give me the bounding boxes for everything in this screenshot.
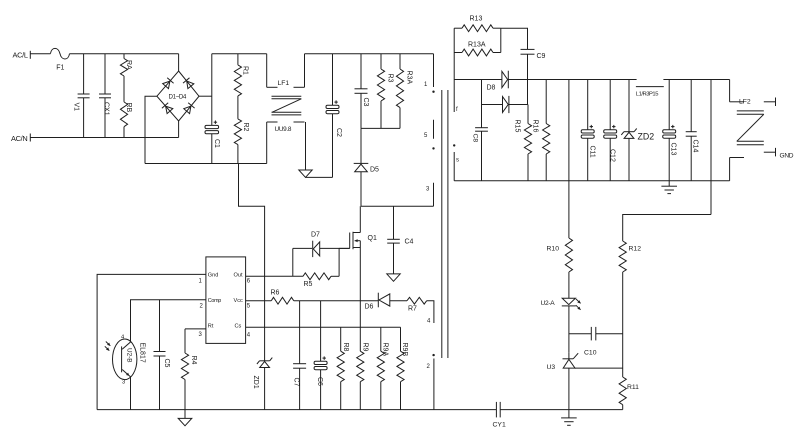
bridge rectifier D1~D4 diamond <box>157 71 199 121</box>
svg-text:Vcc: Vcc <box>234 298 244 304</box>
wire R6 to D6 <box>294 300 379 302</box>
node +V output terminal <box>775 98 777 107</box>
inductor L1 (fusible resistor L1/R3P15) <box>636 86 664 88</box>
wire secondary bottom rail segment <box>500 409 623 411</box>
wire Comp pin 2 line <box>131 300 206 342</box>
fuse F1 <box>50 48 69 59</box>
svg-text:C9: C9 <box>537 53 546 60</box>
capacitor C10 <box>569 333 591 335</box>
wire R13/R13A left legs <box>453 28 455 79</box>
resistor R9A <box>380 327 382 351</box>
wire primary gnd drop to bottom rail <box>239 164 265 361</box>
wire D8 bottom anode line <box>482 104 503 106</box>
svg-text:C4: C4 <box>405 239 414 246</box>
capacitor C7 <box>299 301 301 364</box>
svg-text:CY1: CY1 <box>493 422 506 429</box>
optocoupler U2-B <box>113 339 137 380</box>
wire Vcc pin to R6 <box>246 300 272 302</box>
inductor LF1 (common-mode choke) <box>266 54 268 88</box>
capacitor C4 <box>393 206 395 239</box>
svg-text:R13: R13 <box>470 16 483 23</box>
svg-text:R13A: R13A <box>468 42 486 49</box>
wire AC/N rail to bridge bottom <box>30 137 178 139</box>
svg-text:C3: C3 <box>362 98 369 107</box>
capacitor C6 <box>320 301 322 362</box>
svg-text:C1: C1 <box>213 139 220 148</box>
capacitor C5 <box>159 300 161 352</box>
wire RA to RB <box>123 76 125 102</box>
capacitor C13 <box>668 80 670 130</box>
node aux polarity dot <box>432 147 434 149</box>
wire secondary winding f <box>453 80 455 113</box>
resistor R3A <box>399 54 401 69</box>
svg-text:Rt: Rt <box>208 323 214 329</box>
diode D8 (top) <box>502 71 508 87</box>
svg-text:3: 3 <box>122 380 125 386</box>
svg-text:R3A: R3A <box>406 71 413 85</box>
wire R13 to C9 <box>501 28 528 49</box>
wire AC/L terminal to fuse F1 <box>30 53 50 55</box>
wire D6 to R7 <box>390 300 407 302</box>
wire D7 to Q1 gate <box>320 247 350 249</box>
svg-text:Gnd: Gnd <box>208 272 219 278</box>
svg-text:R12: R12 <box>629 246 642 253</box>
svg-text:UU9.8: UU9.8 <box>275 126 292 133</box>
svg-text:C11: C11 <box>589 146 596 158</box>
wire Q1 source to current-sense line <box>359 248 361 328</box>
svg-text:R4: R4 <box>190 356 197 365</box>
svg-text:C10: C10 <box>584 350 597 357</box>
svg-text:AC/N: AC/N <box>11 134 27 143</box>
svg-text:GND: GND <box>780 152 794 159</box>
svg-text:R9B: R9B <box>401 343 408 357</box>
diode D7 <box>312 241 314 257</box>
wire U2-A cathode down <box>568 306 570 353</box>
svg-text:R15: R15 <box>514 120 521 133</box>
svg-text:D1~D4: D1~D4 <box>169 93 187 100</box>
wire gate line with D7 <box>293 247 312 249</box>
resistor R7 <box>407 297 427 304</box>
svg-text:C8: C8 <box>472 134 479 143</box>
diode D4 (bridge bottom-right) <box>184 106 191 114</box>
ground at U3 <box>568 410 570 418</box>
light arrows into U2-B <box>106 342 111 346</box>
wire snubber rail <box>361 127 400 129</box>
zener diode ZD2 <box>628 80 630 132</box>
capacitor C14 <box>690 80 692 132</box>
wire D8 bottom cathode to C9 column <box>509 104 528 106</box>
earth ground at C4 <box>387 274 400 281</box>
resistor R13 <box>454 27 462 29</box>
node primary polarity dot <box>432 91 434 93</box>
svg-text:C6: C6 <box>316 377 323 386</box>
wire primary bottom rail <box>97 409 496 411</box>
transistor Q1 (MOSFET) <box>359 206 361 232</box>
diode D8 (bottom) <box>503 97 509 113</box>
wire Gnd pin 1 to left drop <box>97 274 206 409</box>
diode D2 (bridge top-right) <box>187 81 194 89</box>
resistor R9B <box>400 327 402 351</box>
svg-text:D7: D7 <box>311 232 320 239</box>
ground at secondary 0V <box>668 181 670 186</box>
wire Vout divider drop <box>568 80 570 239</box>
diode D1 (bridge top-left) <box>163 81 170 89</box>
svg-text:R9A: R9A <box>382 343 389 357</box>
capacitor CX1 <box>104 54 106 94</box>
node pin2 winding dot <box>432 354 434 356</box>
wire bridge left vertex to primary gnd rail <box>145 96 157 163</box>
wire R10 to U2-A <box>568 272 570 298</box>
svg-text:R1: R1 <box>242 66 249 75</box>
svg-text:D6: D6 <box>365 304 374 311</box>
svg-text:ZD1: ZD1 <box>252 376 259 389</box>
capacitor C9 <box>521 48 535 50</box>
wire U3 ref line <box>575 367 623 369</box>
resistor R13A <box>454 52 462 54</box>
svg-text:LF1: LF1 <box>278 80 290 87</box>
svg-text:L1/R3P15: L1/R3P15 <box>636 92 658 98</box>
resistor R4 <box>184 329 186 353</box>
svg-text:U3: U3 <box>547 364 556 371</box>
wire U3 anode to ground <box>568 368 570 410</box>
earth ground at LF1 <box>305 122 307 170</box>
svg-text:C13: C13 <box>670 143 677 156</box>
svg-text:R7: R7 <box>408 306 417 313</box>
wire R7 to transformer pin4 <box>427 301 434 323</box>
resistor R6 <box>271 297 293 304</box>
resistor R16 <box>545 80 547 124</box>
svg-text:C5: C5 <box>163 359 170 368</box>
wire transformer pin 2 to bottom rail <box>433 359 435 410</box>
svg-text:D8: D8 <box>487 85 496 92</box>
wire Cs line <box>246 326 401 328</box>
wire rail after L1 <box>663 79 729 81</box>
wire bridge right vertex to C1 column <box>199 95 212 97</box>
svg-text:RA: RA <box>125 60 132 70</box>
svg-text:R8: R8 <box>342 343 349 352</box>
svg-text:Cs: Cs <box>235 323 242 329</box>
wire secondary 0V rail <box>454 180 729 182</box>
resistor R9 <box>357 351 364 382</box>
wire bridge bottom vertex to AC/N rail <box>178 121 180 138</box>
svg-text:ZD2: ZD2 <box>638 132 655 142</box>
diode D3 (bridge bottom-left) <box>166 106 173 114</box>
capacitor CY1 <box>495 402 497 418</box>
inductor LF2 (output choke) <box>729 80 731 102</box>
wire R13/R13A right legs <box>500 28 502 52</box>
svg-text:R9: R9 <box>362 343 369 352</box>
wire R12 to R11 column <box>622 272 624 377</box>
resistor R12 <box>619 241 626 272</box>
resistor R1 <box>237 54 239 65</box>
svg-text:U2-A: U2-A <box>541 300 556 307</box>
resistor RA <box>123 54 125 59</box>
diode D5 <box>360 128 362 163</box>
wire transformer pin 3 <box>433 183 435 206</box>
resistor R2 <box>234 119 241 145</box>
capacitor C2 <box>332 54 334 106</box>
capacitor C8 <box>481 80 483 128</box>
transformer core <box>441 90 443 358</box>
wire Out pin to R5 <box>246 275 303 277</box>
wire fuse F1 to bridge top node <box>70 53 179 55</box>
svg-text:R5: R5 <box>304 281 313 288</box>
wire to R12 <box>623 215 711 242</box>
svg-text:Comp: Comp <box>208 298 221 304</box>
svg-text:U2-B: U2-B <box>126 348 133 363</box>
optocoupler LED U2-A <box>562 298 575 304</box>
resistor R3 <box>380 54 382 69</box>
wire DC+ rail (LF1 right to transformer pin1) <box>305 53 434 55</box>
svg-text:R10: R10 <box>547 246 560 253</box>
wire secondary winding s <box>453 152 455 181</box>
wire transformer pin 1 (primary top) <box>433 54 435 87</box>
svg-text:LF2: LF2 <box>739 98 751 105</box>
wire C2 bottom to earth node <box>306 176 333 178</box>
wire bridge top vertex to AC/L rail <box>178 54 180 71</box>
svg-text:F1: F1 <box>56 64 64 71</box>
wire R5 to gate node <box>331 275 339 277</box>
resistor R11 <box>619 377 626 405</box>
node secondary polarity dot <box>453 144 455 146</box>
node GND output terminal <box>775 148 777 157</box>
svg-text:s: s <box>456 158 459 164</box>
earth ground at R4 <box>178 418 192 425</box>
capacitor C11 <box>587 80 589 130</box>
svg-text:R2: R2 <box>242 123 249 132</box>
diode D6 <box>377 293 379 308</box>
op-amp U1 (PWM controller box) <box>206 257 246 344</box>
wire rail D8 to L1 <box>508 79 636 81</box>
svg-text:R11: R11 <box>627 384 639 391</box>
wire D7 right leg to R5 right <box>338 248 340 276</box>
svg-text:CX1: CX1 <box>103 102 110 116</box>
wire drain rail <box>361 205 434 207</box>
capacitor C3 <box>360 54 362 89</box>
svg-text:R16: R16 <box>532 120 539 133</box>
svg-text:EL817: EL817 <box>139 343 146 363</box>
shunt regulator U3 (TL431) <box>563 358 574 360</box>
wire DC+ rail (C1 top to LF1 left) <box>212 53 267 55</box>
capacitor C12 <box>609 80 611 130</box>
svg-text:C14: C14 <box>692 140 699 153</box>
resistor R15 <box>527 105 529 124</box>
wire D7 left leg to Out line <box>292 248 294 276</box>
svg-text:C2: C2 <box>335 128 342 137</box>
capacitor C1 (bulk electrolytic) <box>211 54 213 126</box>
wire primary gnd rail <box>145 163 267 165</box>
wire R1 to R2 <box>237 96 239 119</box>
zener diode ZD1 <box>260 360 270 362</box>
wire transformer pin 5 <box>433 120 435 139</box>
svg-text:D5: D5 <box>370 167 379 174</box>
resistor R5 <box>303 273 331 280</box>
svg-text:C12: C12 <box>609 149 616 162</box>
wire secondary + rail (winding to D8) <box>454 79 502 81</box>
wire +V sense drop <box>710 80 712 215</box>
svg-text:R3: R3 <box>387 74 394 83</box>
resistor RB <box>120 102 127 127</box>
resistor R8 <box>340 327 342 351</box>
resistor R10 <box>565 238 572 272</box>
svg-text:C7: C7 <box>293 378 300 387</box>
wire Rt pin 3 stub <box>185 328 206 330</box>
svg-text:RB: RB <box>125 103 132 113</box>
svg-text:Q1: Q1 <box>368 235 377 242</box>
svg-text:Out: Out <box>234 272 243 278</box>
varistor V1 <box>83 54 85 94</box>
svg-text:V1: V1 <box>73 103 80 112</box>
svg-text:R6: R6 <box>271 290 280 297</box>
svg-text:AC/L: AC/L <box>13 51 28 60</box>
